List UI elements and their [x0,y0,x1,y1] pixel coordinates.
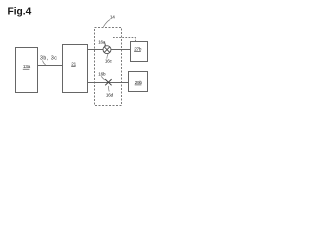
box 21 [63,45,88,93]
leader 3b3c [43,60,46,65]
dashed unit box 14 [95,28,122,106]
valve cross 16b [105,79,111,85]
valve circle 16a [103,46,111,54]
svg-text:16b: 16b [98,72,106,77]
leader 16c [107,54,108,59]
wire valve 16a to 27b [111,49,131,51]
svg-text:13a: 13a [23,64,31,69]
box 13a [16,48,38,93]
leader 16d [107,86,110,92]
svg-text:21: 21 [71,62,76,67]
leader 16b [101,76,105,80]
svg-text:29b: 29b [135,80,143,85]
box 27b [131,42,148,62]
svg-text:Fig.4: Fig.4 [8,6,32,17]
wire 13a to 21 [38,65,63,67]
svg-text:16d: 16d [106,92,114,97]
svg-text:16c: 16c [105,59,113,64]
wire 21 to valve 16a [88,49,104,51]
leader 14 [103,19,110,27]
dashed signal line to 27b [113,38,136,42]
box 29b [129,72,148,92]
arrow 16a [104,42,107,45]
svg-text:14: 14 [110,14,115,19]
wire 21 to valve 16b to 29b [88,82,129,84]
svg-text:27b: 27b [134,47,142,52]
